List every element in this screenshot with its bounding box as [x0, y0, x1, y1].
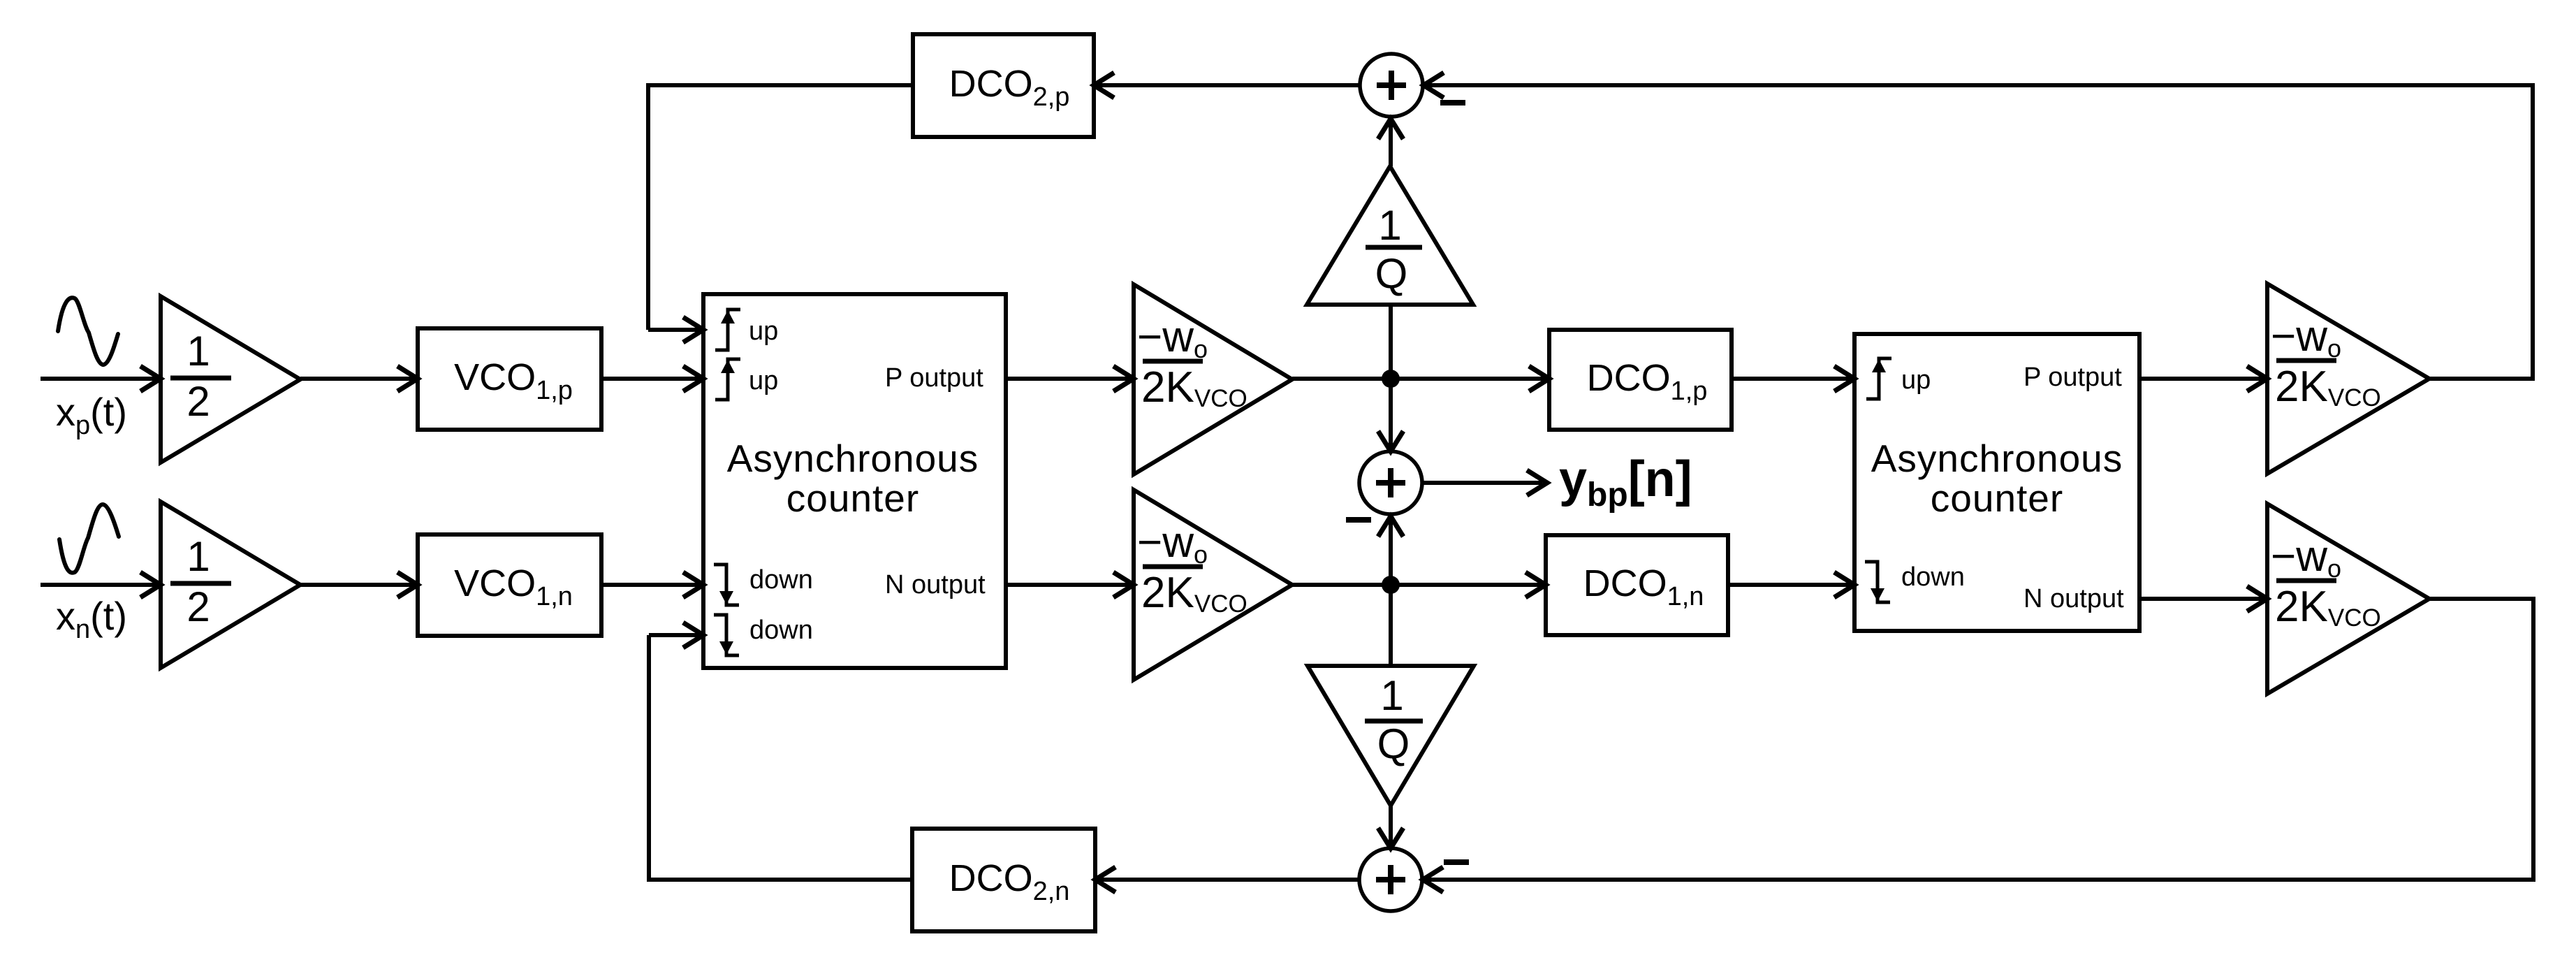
svg-text:N output: N output: [885, 570, 986, 599]
svg-text:1: 1: [186, 328, 210, 374]
svg-text:up: up: [749, 366, 778, 395]
svg-text:down: down: [749, 616, 813, 645]
svg-text:counter: counter: [1931, 477, 2063, 520]
svg-text:2: 2: [186, 378, 210, 425]
svg-text:xp(t): xp(t): [56, 390, 127, 440]
svg-text:down: down: [1901, 562, 1965, 592]
svg-text:P output: P output: [885, 363, 983, 393]
svg-text:counter: counter: [786, 477, 919, 520]
svg-text:up: up: [1901, 365, 1931, 395]
svg-text:Asynchronous: Asynchronous: [727, 437, 979, 480]
svg-text:1: 1: [186, 533, 210, 580]
svg-text:N output: N output: [2024, 584, 2124, 613]
svg-text:xn(t): xn(t): [56, 594, 127, 644]
svg-text:Q: Q: [1375, 250, 1408, 297]
svg-text:2: 2: [186, 583, 210, 630]
svg-text:up: up: [749, 317, 778, 346]
svg-text:down: down: [749, 565, 813, 595]
svg-text:Asynchronous: Asynchronous: [1871, 437, 2123, 480]
svg-text:P output: P output: [2024, 363, 2122, 392]
svg-text:Q: Q: [1377, 720, 1410, 767]
svg-text:1: 1: [1378, 202, 1401, 249]
svg-text:1: 1: [1380, 672, 1403, 719]
